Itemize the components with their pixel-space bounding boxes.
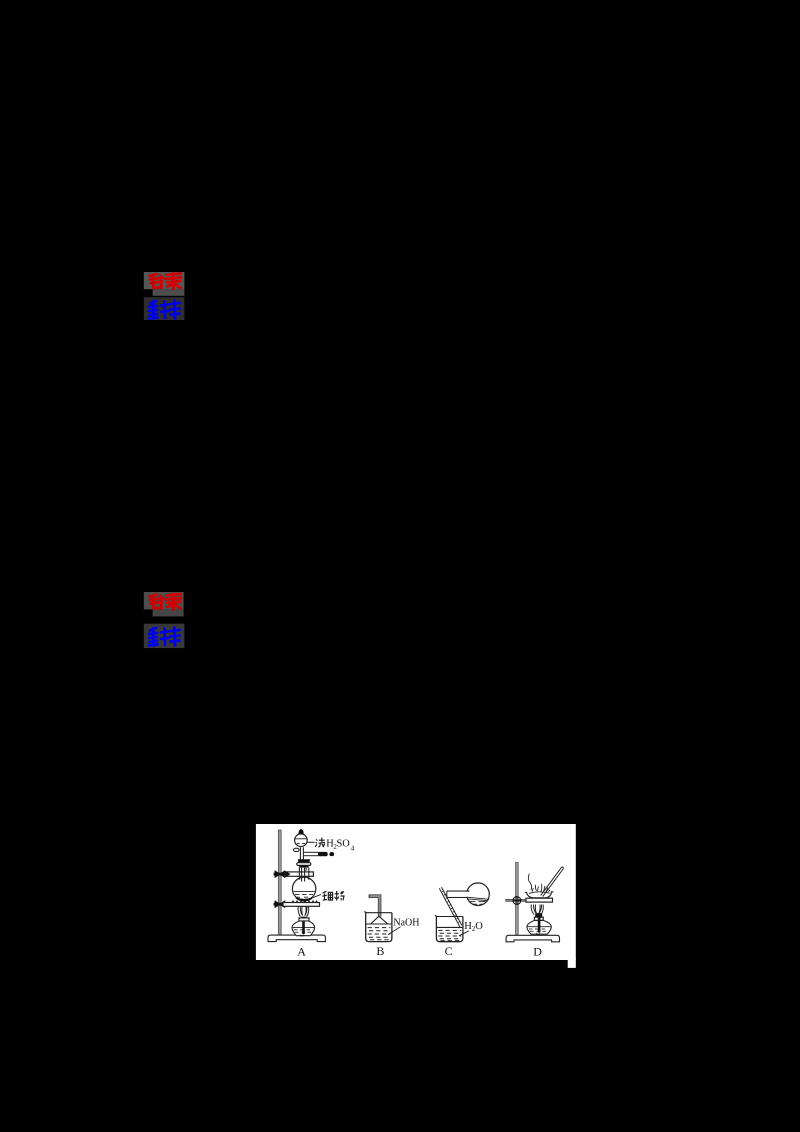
A neck vent dot	[304, 868, 306, 870]
A neck stopper assembly	[298, 859, 310, 863]
铜 glyph	[322, 891, 332, 900]
A gauze teeth	[292, 900, 319, 903]
svg-text:A: A	[297, 944, 306, 958]
C liquid	[437, 926, 463, 928]
B inverted funnel	[371, 916, 388, 924]
C beaker	[435, 915, 463, 942]
B liquid surface and dashes	[366, 923, 392, 925]
svg-text:C: C	[445, 944, 453, 958]
D lamp liquid	[528, 927, 551, 932]
analysis label 1 (blue 解析 on dark gray box)	[144, 297, 185, 320]
A lamp wick inner	[302, 921, 305, 934]
A side tube with black tubing	[304, 852, 319, 855]
D lamp body	[527, 920, 551, 934]
D lamp wick inner	[538, 917, 541, 932]
A flask neck	[299, 868, 308, 882]
A label line and text 浓H2SO4	[307, 841, 314, 843]
B bent delivery tube	[369, 896, 380, 916]
svg-text:D: D	[533, 945, 542, 959]
A iron ring with wire gauze	[283, 903, 320, 907]
B beaker	[365, 911, 392, 941]
D lamp collar	[534, 917, 543, 920]
D lamp wick band	[535, 913, 542, 917]
diagram line art	[268, 829, 564, 959]
D flame petals	[531, 905, 543, 916]
C flask neck horizontal	[447, 891, 470, 897]
A flame petals	[298, 907, 309, 918]
A clamp knob lower (ring holder)	[274, 901, 285, 907]
D stand pole	[516, 863, 519, 936]
A lamp collar	[299, 918, 309, 921]
浓 glyph	[315, 838, 325, 848]
svg-text:4: 4	[351, 845, 355, 853]
analysis label 2 (blue 解析 on dark gray box)	[144, 624, 185, 648]
answer label 2 (red 答案 on gray box)	[144, 592, 184, 616]
A funnel stem and stopcock	[294, 847, 304, 860]
C diagonal tube into beaker	[439, 887, 462, 927]
A flask liquid and copper powder	[294, 892, 315, 898]
svg-text:O: O	[475, 921, 483, 932]
D stand base	[506, 935, 559, 942]
A round-bottom flask	[292, 877, 315, 900]
A dropping funnel ball	[295, 834, 308, 847]
A lamp wick	[301, 917, 305, 921]
D dish contents scraggle	[528, 874, 550, 894]
A stand base	[268, 935, 325, 942]
A lamp body	[292, 921, 315, 936]
A funnel liquid	[295, 839, 307, 844]
svg-text:NaOH: NaOH	[393, 917, 419, 928]
answer label 1 (red 答案 on gray box)	[144, 272, 185, 296]
粉 glyph	[335, 891, 345, 901]
svg-text:B: B	[376, 944, 384, 958]
A funnel top stopper	[299, 829, 303, 835]
svg-text:SO: SO	[337, 838, 351, 849]
A clamp knob upper (bosshead)	[274, 871, 285, 877]
C flask ball	[467, 883, 490, 906]
A label line and text 铜粉	[313, 895, 321, 898]
C liquid in flask	[467, 897, 489, 904]
A iron stand pole	[278, 830, 281, 936]
panel bottom-right tab	[568, 958, 576, 968]
D evaporating dish	[526, 891, 552, 898]
A clamp arm holding neck	[285, 871, 314, 877]
D clamp with cross knob	[506, 899, 527, 901]
white diagram panel	[256, 824, 576, 968]
D glass rod	[541, 867, 564, 897]
D ring bar	[526, 898, 553, 902]
A lamp liquid	[293, 927, 314, 932]
